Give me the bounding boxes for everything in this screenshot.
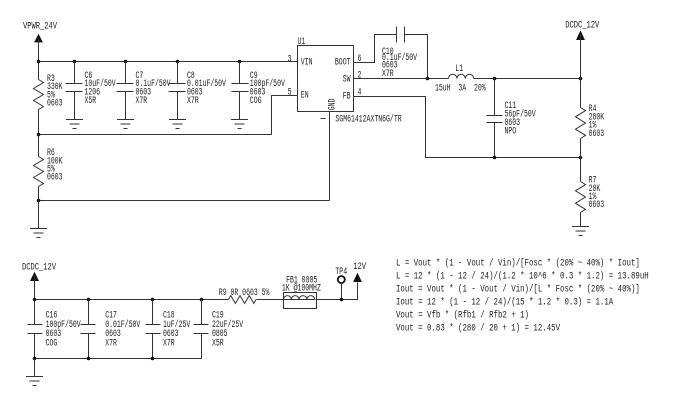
ground lower <box>26 359 43 386</box>
svg-text:L = Vout * (1 - Vout / Vin)/[F: L = Vout * (1 - Vout / Vin)/[Fosc * (20%… <box>396 257 640 268</box>
capacitor C6 <box>66 62 117 120</box>
IC U1 SGM61412 <box>298 36 354 112</box>
svg-text:X5R: X5R <box>212 337 224 349</box>
svg-text:0603: 0603 <box>47 97 63 109</box>
svg-text:X7R: X7R <box>382 68 394 80</box>
svg-text:0603: 0603 <box>589 199 605 211</box>
svg-text:12V: 12V <box>353 261 366 273</box>
junction at C11 top <box>493 77 497 81</box>
wire lower rail left <box>35 299 229 301</box>
junction at C9 top <box>238 60 242 64</box>
ground at R6 bottom <box>30 201 47 238</box>
svg-text:GND: GND <box>326 99 338 111</box>
wire SW rail right of L1 <box>474 78 581 80</box>
svg-text:R9 0R 0603 5%: R9 0R 0603 5% <box>219 286 270 298</box>
junction bottom bus at C16 <box>33 357 37 361</box>
svg-text:COG: COG <box>250 95 262 107</box>
svg-text:X7R: X7R <box>105 337 117 349</box>
wire lower bottom bus <box>35 358 202 360</box>
capacitor C10 <box>382 27 428 80</box>
svg-text:EN: EN <box>301 89 309 101</box>
svg-text:X7R: X7R <box>187 95 199 107</box>
resistor R7 <box>576 158 605 227</box>
junction bottom bus at C18 <box>151 357 155 361</box>
junction SW at C10 <box>426 77 430 81</box>
ferrite bead FB1 <box>282 274 321 308</box>
wire FB net <box>354 97 581 158</box>
ground under C7 <box>117 120 134 129</box>
resistor R4 <box>576 79 605 158</box>
ground under C9 <box>231 120 248 129</box>
junction at TP4 <box>340 298 344 302</box>
svg-text:DCDC_12V: DCDC_12V <box>565 20 600 32</box>
junction FB bus at C11 <box>493 156 497 160</box>
wire VIN bus <box>39 61 298 63</box>
power flag DCDC_12V (top right) <box>576 30 585 78</box>
svg-text:NPO: NPO <box>505 125 517 137</box>
svg-text:15uH 3A 20%: 15uH 3A 20% <box>435 82 486 94</box>
svg-text:1K @100MHZ: 1K @100MHZ <box>282 282 321 294</box>
svg-text:2: 2 <box>358 69 362 81</box>
svg-text:L1: L1 <box>455 63 463 75</box>
inductor L1 <box>435 63 486 94</box>
test point TP4 <box>335 266 347 300</box>
capacitor C16 <box>28 300 82 359</box>
junction at C8 top <box>176 60 180 64</box>
wire EN net <box>39 96 298 135</box>
svg-text:VPWR_24V: VPWR_24V <box>23 20 58 32</box>
power flag DCDC_12V (lower) <box>30 272 39 300</box>
svg-text:Vout = 0.83 * (280 / 20 + 1) =: Vout = 0.83 * (280 / 20 + 1) = 12.45V <box>396 323 561 334</box>
ground under C8 <box>169 120 186 129</box>
svg-text:0603: 0603 <box>47 171 63 183</box>
wire rail FB1 to 12V <box>316 283 358 300</box>
junction FB bus at R4/R7 <box>579 156 583 160</box>
resistor R9 <box>219 286 270 303</box>
junction at C6 top <box>73 60 77 64</box>
junction lower rail at C17 <box>87 298 91 302</box>
ground under C6 <box>66 120 83 129</box>
junction EN at R3/R6 <box>37 133 41 137</box>
junction at R4 top <box>579 77 583 81</box>
svg-text:0603: 0603 <box>589 127 605 139</box>
junction lower rail at C16 <box>33 298 37 302</box>
svg-text:DCDC_12V: DCDC_12V <box>22 261 57 273</box>
junction lower rail at C18 <box>151 298 155 302</box>
svg-text:BOOT: BOOT <box>335 56 351 68</box>
capacitor C7 <box>117 62 172 120</box>
svg-text:FB: FB <box>343 90 351 102</box>
capacitor C18 <box>146 300 191 359</box>
svg-text:X7R: X7R <box>136 95 148 107</box>
junction bottom bus at C17 <box>87 357 91 361</box>
svg-text:COG: COG <box>46 337 58 349</box>
svg-text:SW: SW <box>343 73 352 85</box>
svg-text:X5R: X5R <box>85 95 97 107</box>
power flag VPWR_24V <box>34 34 43 62</box>
svg-text:Iout = Vout * (1 - Vout / Vin): Iout = Vout * (1 - Vout / Vin)/[L * Fosc… <box>396 284 640 295</box>
wire BOOT net <box>354 35 397 63</box>
svg-text:Iout = 12 * (1 - 12 / 24)/(15: Iout = 12 * (1 - 12 / 24)/(15 * 1.2 * 0.… <box>396 297 614 308</box>
formula text block <box>396 257 649 334</box>
svg-text:SGM61412AXTN6G/TR: SGM61412AXTN6G/TR <box>335 113 401 125</box>
svg-text:TP4: TP4 <box>335 266 347 278</box>
resistor R6 <box>34 135 64 201</box>
power flag 12V <box>353 273 362 282</box>
ground under R7 <box>572 227 589 236</box>
wire GND bus <box>39 200 330 202</box>
svg-text:U1: U1 <box>298 36 306 48</box>
wire U1 GND pin to bus <box>329 112 331 201</box>
svg-text:Vout = Vfb * (Rfb1 / Rfb2 + 1): Vout = Vfb * (Rfb1 / Rfb2 + 1) <box>396 310 529 321</box>
capacitor C11 <box>487 79 537 158</box>
junction at C7 top <box>124 60 128 64</box>
capacitor C8 <box>169 62 227 120</box>
junction GND bus at R6 <box>37 199 41 203</box>
wire rail R9 to FB1 <box>257 299 284 301</box>
resistor R3 <box>34 62 64 135</box>
svg-text:VIN: VIN <box>301 56 313 68</box>
junction lower rail at C19 <box>200 298 204 302</box>
wire SW rail <box>354 78 449 80</box>
svg-text:5: 5 <box>288 86 292 98</box>
junction at R3 top <box>37 60 41 64</box>
capacitor C17 <box>81 300 141 359</box>
svg-text:3: 3 <box>288 53 292 65</box>
capacitor C19 <box>194 300 244 359</box>
svg-text:X7R: X7R <box>163 337 175 349</box>
capacitor C9 <box>232 62 286 120</box>
pin number 1 (GND, rotated) <box>321 118 326 120</box>
svg-text:L = 12 * (1 - 12 / 24)/(1.2 *: L = 12 * (1 - 12 / 24)/(1.2 * 10^6 * 0.3… <box>396 270 649 281</box>
